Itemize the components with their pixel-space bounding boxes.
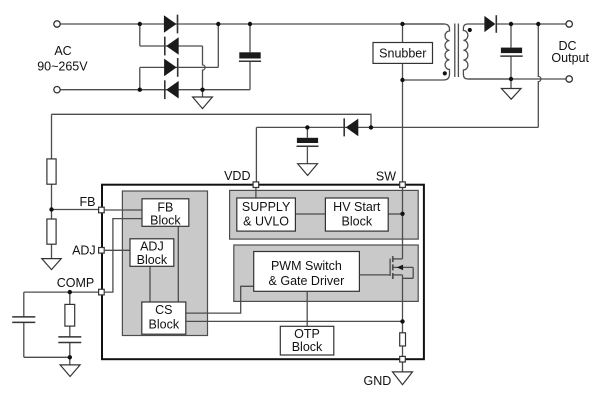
wire FB block to CS block (177, 226, 179, 302)
svg-text:HV Start: HV Start (333, 200, 381, 214)
wire output cap top lead (510, 24, 512, 48)
svg-text:Block: Block (137, 253, 168, 267)
wire bridge riser to top rail (217, 24, 219, 67)
wire bridge row3 (140, 66, 219, 68)
svg-text:& Gate Driver: & Gate Driver (269, 274, 345, 288)
svg-text:& UVLO: & UVLO (243, 215, 289, 229)
capacitor C4 COMP parallel (12, 317, 35, 323)
resistor R2 feedback lower (47, 219, 56, 244)
wire output ground stem (510, 79, 512, 89)
node FB divider junction M (49, 207, 53, 211)
pin GND (400, 356, 406, 362)
svg-text:Output: Output (551, 51, 589, 65)
wire snubber top lead (402, 24, 404, 43)
node DC plus junction K (536, 22, 540, 26)
wire HV block to SW line (388, 213, 402, 215)
transistor Q1 gate bar (389, 259, 391, 276)
wire ADJ pin to ADJ block (105, 249, 130, 251)
transformer secondary phase dot (468, 28, 472, 32)
svg-text:ADJ: ADJ (140, 240, 164, 254)
svg-text:OTP: OTP (294, 327, 320, 341)
capacitor C2 output (500, 48, 522, 57)
diode D6 VDD aux (344, 118, 358, 136)
pin FB (99, 207, 105, 213)
ground VDD cap (298, 164, 318, 176)
analog gray box left (122, 191, 207, 336)
wire sense resistor to GND pin (402, 346, 404, 356)
ground COMP (60, 365, 80, 377)
node SW HV junction P (400, 212, 404, 216)
wire GND pin to ground (402, 362, 404, 372)
svg-text:FB: FB (157, 200, 173, 214)
svg-text:PWM Switch: PWM Switch (271, 259, 342, 273)
PWM Switch and Gate Driver box (254, 252, 360, 292)
resistor R1 feedback upper (47, 159, 56, 184)
wire output cap bottom lead (510, 56, 512, 79)
wire top rail AC line (60, 23, 444, 25)
wire input cap top lead (249, 24, 251, 52)
wire FB divider top vertical (51, 114, 53, 159)
node COMP ground junction O (68, 355, 72, 359)
svg-text:GND: GND (364, 374, 392, 388)
pin SW (400, 182, 406, 188)
node top rail junction D snubber (400, 22, 404, 26)
resistor R4 sense (400, 333, 406, 346)
transistor Q1 body connection loop (393, 267, 413, 278)
node aux diode junction I (369, 125, 373, 129)
node top rail junction B (216, 22, 220, 26)
wire DC plus drop with hop (538, 24, 541, 127)
AC input terminal bottom (54, 87, 60, 93)
wire bridge left vertical lower (139, 67, 141, 89)
svg-text:Snubber: Snubber (379, 46, 426, 60)
wire FB pin lead (52, 209, 100, 211)
wire VDD vertical to pin (255, 127, 257, 181)
ground output (501, 89, 521, 100)
SUPPLY and UVLO block box U1a (237, 198, 296, 231)
wire PWM block to OTP block (306, 291, 308, 326)
capacitor C1 input bulk (239, 52, 261, 61)
DC output terminal plus (566, 21, 572, 27)
svg-text:Block: Block (342, 215, 373, 229)
ground bridge (193, 97, 213, 109)
node primary bottom junction G (400, 78, 404, 82)
wire input cap bottom lead (249, 61, 251, 89)
resistor R3 COMP series (65, 304, 75, 326)
wire CS block to sense node (186, 320, 403, 322)
diode D1 bridge (164, 15, 178, 34)
wire output diode to DC terminal (496, 23, 566, 25)
Snubber box (373, 43, 433, 64)
node top rail junction C input cap (248, 22, 252, 26)
transformer primary winding (403, 24, 450, 80)
pin VDD (253, 182, 259, 188)
wire ADJ block to CS block (149, 266, 151, 302)
svg-text:SW: SW (376, 169, 396, 183)
svg-text:90~265V: 90~265V (37, 60, 88, 74)
wire source vertical to sense resistor (402, 275, 404, 333)
transformer core lines (455, 24, 459, 78)
transistor Q1 body diode arrow (397, 265, 403, 271)
node source sense junction Q (400, 319, 404, 323)
svg-text:FB: FB (80, 195, 96, 209)
AC input terminal top (54, 21, 60, 27)
wire VDD cap ground lead (306, 146, 308, 164)
svg-text:AC: AC (54, 44, 71, 58)
svg-text:ADJ: ADJ (72, 244, 96, 258)
OTP Block box (280, 326, 334, 355)
diode D3 bridge (164, 58, 178, 77)
node bottom rail junction F ground (200, 88, 204, 92)
pin ADJ (99, 248, 105, 254)
svg-text:CS: CS (155, 303, 172, 317)
svg-text:Block: Block (292, 340, 323, 354)
transistor Q1 drain lead (393, 258, 403, 260)
ground GND pin (393, 372, 413, 385)
CS Block box (142, 302, 186, 334)
wire COMP pin lead (24, 291, 99, 293)
node DC minus junction L (509, 77, 513, 81)
wire FB pin to FB block (105, 209, 142, 211)
wire CS block to PWM block (186, 286, 254, 313)
diode D2 bridge (165, 37, 179, 56)
svg-text:Block: Block (150, 214, 181, 228)
wire COMP pin riser to FB block (105, 219, 142, 293)
wire bridge row2 (140, 45, 203, 47)
PWM gray box (234, 245, 418, 301)
svg-text:Block: Block (149, 317, 180, 331)
wire gate lead from PWM driver (359, 274, 390, 276)
svg-text:VDD: VDD (224, 169, 250, 183)
transistor Q1 channel segments (392, 256, 394, 279)
wire snubber bottom lead down to SW pin (402, 63, 404, 181)
supply gray box top (230, 190, 419, 239)
wire output bottom rail (468, 78, 566, 80)
wire FB divider ground lead (51, 244, 53, 258)
node top rail junction A (138, 22, 142, 26)
wire bridge left vertical upper (139, 24, 141, 46)
node COMP junction N (68, 290, 72, 294)
ground FB divider (42, 259, 61, 270)
node VDD cap junction H (305, 125, 309, 129)
IC outer box (102, 185, 424, 360)
wire feedback top horizontal y114 (52, 114, 372, 127)
capacitor C3 VDD (297, 138, 319, 146)
wire bottom rail AC line (60, 89, 250, 91)
DC output terminal minus (566, 76, 572, 82)
capacitor C5 COMP series (58, 337, 81, 343)
diode D4 bridge (165, 80, 179, 99)
svg-text:COMP: COMP (57, 276, 95, 290)
wire SW vertical to drain (402, 188, 404, 259)
FB Block box (142, 199, 189, 228)
wire COMP RC branch (69, 292, 71, 365)
wire bridge right vertical with hop (203, 46, 206, 90)
wire COMP left cap branch (24, 292, 70, 357)
wire bridge ground stem (202, 90, 204, 97)
diode D5 output rectifier (484, 15, 496, 33)
transistor Q1 source lead (393, 274, 403, 276)
wire VDD aux rail y127 (256, 126, 538, 128)
wire VDD cap top lead (306, 127, 308, 137)
node bottom rail junction E (138, 88, 142, 92)
wire FB divider middle vertical (51, 184, 53, 219)
wire SUPPLY to HV block (295, 213, 325, 215)
node DC plus junction J (509, 22, 513, 26)
HV Start Block box (325, 198, 388, 231)
transformer secondary winding (463, 24, 511, 79)
svg-text:SUPPLY: SUPPLY (242, 200, 291, 214)
wire VDD pin stub (255, 188, 257, 198)
pin COMP (99, 289, 105, 295)
transformer primary phase dot (443, 71, 447, 75)
ADJ Block box (130, 239, 174, 267)
